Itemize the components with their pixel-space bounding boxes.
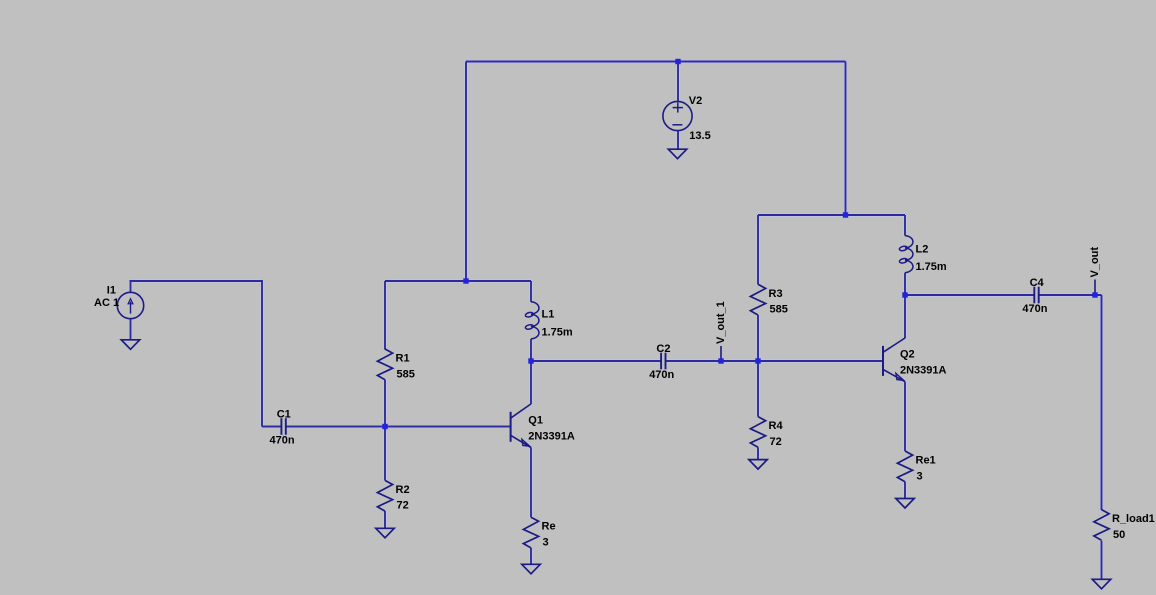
- wire Q1 collector vertical: [530, 361, 532, 404]
- svg-text:Re: Re: [542, 521, 556, 533]
- capacitor C4: [1022, 277, 1047, 315]
- wire top-rail to V2: [677, 62, 679, 103]
- svg-text:L2: L2: [916, 243, 929, 255]
- svg-text:585: 585: [397, 368, 415, 380]
- wire corner down to C1 row: [261, 280, 263, 427]
- svg-text:C2: C2: [656, 343, 670, 355]
- wire C1 to Q1 base: [286, 426, 511, 428]
- transistor Q2: [883, 338, 947, 382]
- node R3/R4/Q2-base junction: [755, 358, 760, 363]
- node V_out_1 junction: [718, 358, 723, 363]
- wire R2 to ground: [384, 511, 386, 528]
- svg-text:V_out_1: V_out_1: [715, 301, 727, 344]
- svg-text:470n: 470n: [270, 434, 295, 446]
- svg-text:L1: L1: [542, 309, 555, 321]
- ground under R_load1: [1092, 579, 1110, 589]
- wire V2 to ground: [677, 131, 679, 150]
- wire L2 to collector node: [904, 273, 906, 295]
- svg-text:Q2: Q2: [900, 349, 915, 361]
- svg-text:470n: 470n: [649, 369, 674, 381]
- ground under R2: [376, 528, 394, 538]
- resistor Re1: [897, 451, 935, 482]
- svg-text:1.75m: 1.75m: [542, 326, 573, 338]
- node R1/R2/base junction: [382, 424, 387, 429]
- ground under V2: [668, 149, 686, 159]
- svg-text:R1: R1: [396, 353, 410, 365]
- wire R1-top to L1-top (y=281): [385, 280, 531, 282]
- svg-text:Re1: Re1: [916, 455, 936, 467]
- wire stage2 rail: [758, 214, 905, 216]
- svg-text:2N3391A: 2N3391A: [528, 431, 575, 443]
- resistor R3: [750, 284, 787, 315]
- wire rail to R3: [757, 215, 759, 284]
- node rail drop / y281 junction: [463, 278, 468, 283]
- svg-text:3: 3: [543, 537, 549, 549]
- ground under Re: [522, 564, 540, 574]
- svg-text:50: 50: [1113, 529, 1125, 541]
- wire V_out_1 node to R3/R4 node: [721, 360, 758, 362]
- resistor R_load1: [1094, 510, 1155, 541]
- capacitor C2: [649, 343, 674, 381]
- wire Re1 to ground: [904, 482, 906, 499]
- svg-text:R_load1: R_load1: [1112, 513, 1155, 525]
- wire C2 to V_out_1 node: [666, 360, 721, 362]
- svg-text:I1: I1: [107, 285, 116, 297]
- svg-text:AC 1: AC 1: [94, 297, 119, 309]
- wire top-rail right drop to stage2: [845, 62, 847, 216]
- node Q1 collector / L1 / C2 junction: [528, 358, 533, 363]
- wire corner to C1: [262, 426, 282, 428]
- wire rail to L2: [904, 215, 906, 236]
- svg-text:13.5: 13.5: [689, 130, 710, 142]
- wire base node down to R2: [384, 427, 386, 481]
- wire Q1 emitter vertical: [530, 448, 532, 518]
- node stage2 rail junction: [843, 212, 848, 217]
- ground under Re1: [896, 499, 914, 509]
- wire V_out node down to R_load1: [1101, 295, 1103, 510]
- resistor R4: [750, 417, 783, 448]
- wire top-rail left drop to stage1: [465, 62, 467, 283]
- svg-text:72: 72: [397, 500, 409, 512]
- wire collector node to C4: [905, 294, 1034, 296]
- wire top rail: [466, 61, 846, 63]
- wire collector node to C2: [531, 360, 661, 362]
- svg-text:V_out: V_out: [1089, 247, 1101, 278]
- transistor Q1: [511, 404, 575, 448]
- capacitor C1: [270, 408, 295, 446]
- svg-text:1.75m: 1.75m: [916, 261, 947, 273]
- wire C4 to V_out node: [1039, 294, 1102, 296]
- node Q2 collector / L2 / C4 junction: [902, 292, 907, 297]
- inductor L2: [899, 236, 947, 274]
- svg-text:R4: R4: [769, 420, 784, 432]
- resistor R1: [377, 349, 414, 380]
- ground under R4: [749, 460, 767, 470]
- svg-text:585: 585: [770, 304, 788, 316]
- wire Q2 emitter vertical: [904, 382, 906, 451]
- wire L1 to collector node: [530, 339, 532, 361]
- node top rail / V2 junction: [675, 59, 680, 64]
- svg-text:3: 3: [917, 470, 923, 482]
- svg-text:R3: R3: [769, 288, 783, 300]
- svg-text:V2: V2: [689, 95, 702, 107]
- wire R_load1 to ground: [1101, 541, 1103, 580]
- svg-text:470n: 470n: [1022, 303, 1047, 315]
- node V_out net-label pin: [1094, 280, 1096, 296]
- voltage source V2: [663, 95, 711, 142]
- wire y281 down to L1: [530, 281, 532, 302]
- svg-text:C4: C4: [1030, 277, 1045, 289]
- node V_out_1 net-label pin: [720, 346, 722, 361]
- wire y281 down to R1: [384, 281, 386, 350]
- wire R1 to base node: [384, 380, 386, 427]
- svg-text:2N3391A: 2N3391A: [900, 365, 947, 377]
- current source I1: [94, 285, 144, 319]
- wire I1 to corner: [130, 280, 263, 282]
- wire base node to R4: [757, 361, 759, 417]
- wire base node to Q2: [758, 360, 883, 362]
- ground under I1: [121, 340, 139, 350]
- resistor Re: [523, 517, 555, 548]
- wire R4 to ground: [757, 447, 759, 459]
- svg-text:Q1: Q1: [528, 415, 543, 427]
- wire Q2 collector vertical: [904, 295, 906, 338]
- inductor L1: [525, 302, 573, 339]
- wire R3 to base node: [757, 315, 759, 361]
- svg-text:72: 72: [770, 436, 782, 448]
- svg-text:R2: R2: [396, 484, 410, 496]
- wire Re to ground: [530, 548, 532, 565]
- wire I1 bottom to ground: [130, 318, 132, 340]
- resistor R2: [377, 480, 409, 511]
- svg-text:C1: C1: [277, 408, 291, 420]
- node V_out junction: [1092, 292, 1097, 297]
- wire I1 top stub: [130, 281, 132, 293]
